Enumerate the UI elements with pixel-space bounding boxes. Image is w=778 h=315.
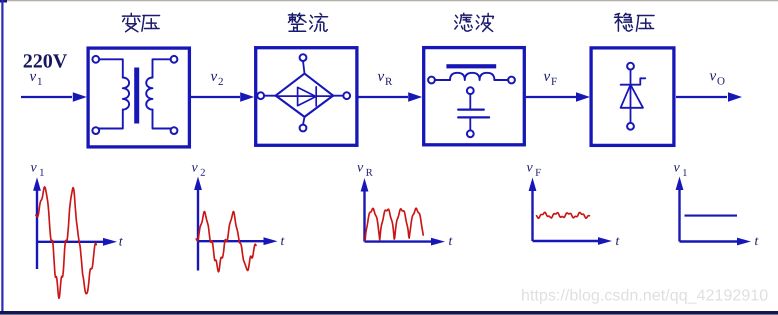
wire output arrow vO [676, 92, 742, 102]
block label 变压 (transformer) [122, 13, 159, 31]
waveform v2 axis label [192, 165, 205, 176]
filter block box [424, 48, 525, 145]
waveform v2 vertical axis [194, 177, 202, 271]
transformer T1 core [134, 68, 139, 124]
wire input arrow v1 into transformer [21, 92, 87, 102]
bridge terminal stubs [264, 61, 343, 125]
waveform v1 axis label [31, 165, 44, 176]
waveform vR rectified curve [365, 208, 423, 240]
transformer T1 secondary winding [146, 59, 171, 128]
block label 滤波 (filter) [455, 13, 494, 31]
waveform vF time axis [533, 237, 613, 245]
waveform vR time axis [365, 238, 446, 246]
inductor L1 winding [435, 73, 509, 80]
inductor L1 terminal pins [428, 77, 515, 84]
net label vF [544, 74, 557, 85]
value label 220V mains input [24, 54, 67, 68]
waveform v1 time axis [37, 238, 117, 246]
capacitor C1 tap pin [467, 87, 474, 94]
waveform v1 t label [119, 238, 122, 246]
waveform vO axis label [674, 165, 687, 176]
wire arrow rectifier to filter [359, 92, 423, 102]
wire arrow filter to regulator [526, 92, 590, 102]
net label vO (output) [710, 73, 725, 84]
waveform vO DC level line [685, 215, 738, 217]
waveform v2 sine curve [196, 212, 256, 272]
inductor L1 core bar [446, 64, 496, 68]
rectifier block box [256, 48, 357, 146]
waveform v1 vertical axis [33, 177, 41, 269]
waveform vO t label [755, 237, 758, 245]
transformer T1 terminal pins [92, 56, 177, 134]
bridge rectifier D1 diamond [276, 74, 333, 117]
block label 整流 (rectifier) [288, 13, 327, 31]
diode inside bridge [276, 87, 333, 106]
net label vR [378, 74, 393, 85]
waveform v1 sine curve [36, 187, 97, 298]
watermark [522, 289, 767, 304]
wire arrow transformer to rectifier [191, 92, 255, 102]
net label v1 (input) [30, 74, 42, 85]
zener diode DZ terminal pins [627, 63, 634, 130]
waveform vR axis label [357, 165, 372, 176]
waveform vO time axis [680, 238, 752, 246]
transformer T1 primary winding [99, 59, 129, 128]
regulator block box [591, 48, 674, 145]
block label 稳压 (regulator) [614, 13, 654, 31]
waveform v2 t label [281, 237, 284, 245]
waveform vR vertical axis [361, 178, 369, 242]
waveform vF ripple curve [537, 212, 590, 218]
waveform vR t label [449, 237, 452, 245]
waveform vF t label [616, 237, 619, 245]
bridge rectifier terminal pins [257, 54, 350, 131]
waveform vF axis label [527, 165, 541, 176]
net label v2 [211, 74, 223, 85]
waveform vO vertical axis [676, 177, 684, 242]
transformer block box [88, 48, 189, 147]
waveform vF vertical axis [529, 178, 537, 242]
capacitor C1 bottom pin [467, 130, 474, 137]
zener diode DZ [621, 70, 646, 124]
capacitor C1 [458, 94, 489, 130]
waveform v2 time axis [198, 237, 278, 245]
